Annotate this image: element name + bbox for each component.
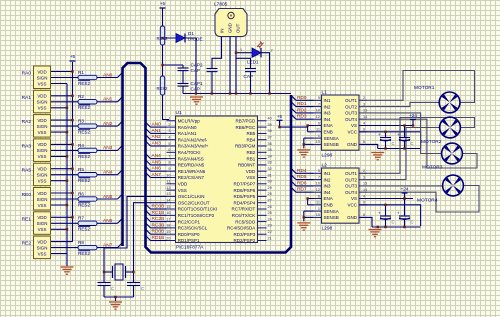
svg-text:OUT4: OUT4 <box>345 117 357 122</box>
svg-text:7: 7 <box>318 102 320 106</box>
svg-text:AN5: AN5 <box>152 159 162 165</box>
svg-text:15: 15 <box>316 140 320 144</box>
svg-text:IN: IN <box>220 29 225 33</box>
svg-text:R4: R4 <box>78 143 84 148</box>
svg-text:OSC2/CLKOUT: OSC2/CLKOUT <box>178 200 210 205</box>
svg-text:OSC1/CLKIN: OSC1/CLKIN <box>178 194 205 199</box>
svg-text:SENSA: SENSA <box>324 136 339 141</box>
svg-text:40: 40 <box>268 117 272 121</box>
svg-text:RD2: RD2 <box>297 107 307 113</box>
svg-text:37: 37 <box>268 136 272 140</box>
svg-text:VSS: VSS <box>246 175 255 180</box>
svg-text:IN4: IN4 <box>324 190 332 195</box>
svg-text:RC1B: RC1B <box>152 210 165 216</box>
svg-text:RD0: RD0 <box>297 95 307 101</box>
svg-text:RA2: RA2 <box>22 119 32 125</box>
svg-text:VDD: VDD <box>37 167 46 172</box>
svg-text:12: 12 <box>166 186 170 190</box>
svg-text:CAP: CAP <box>191 86 200 91</box>
svg-text:RC5/SDO: RC5/SDO <box>235 219 256 224</box>
svg-text:VS: VS <box>351 196 357 201</box>
svg-text:RA1: RA1 <box>22 95 32 101</box>
svg-text:C: C <box>392 220 395 225</box>
svg-text:SIGN: SIGN <box>37 221 48 226</box>
svg-text:5: 5 <box>318 96 320 100</box>
svg-text:RC6/TX/CK: RC6/TX/CK <box>232 213 256 218</box>
svg-text:VSS: VSS <box>38 154 47 159</box>
svg-text:RB4: RB4 <box>247 137 256 142</box>
svg-text:RES2: RES2 <box>157 86 169 91</box>
svg-text:2: 2 <box>271 49 273 53</box>
svg-text:CAP: CAP <box>244 74 253 79</box>
svg-text:RD7/PSP7: RD7/PSP7 <box>234 182 256 187</box>
svg-text:R5: R5 <box>78 167 84 172</box>
svg-text:RES2: RES2 <box>78 227 90 232</box>
svg-text:1: 1 <box>240 48 242 52</box>
svg-text:6: 6 <box>318 194 320 198</box>
svg-text:AN7: AN7 <box>103 242 113 248</box>
svg-text:3: 3 <box>363 175 365 179</box>
svg-text:RD1: RD1 <box>297 101 307 107</box>
svg-text:AN4: AN4 <box>152 153 162 159</box>
svg-text:VSS: VSS <box>38 179 47 184</box>
svg-text:IN3: IN3 <box>324 184 332 189</box>
svg-text:10: 10 <box>316 182 320 186</box>
svg-text:OUT2: OUT2 <box>345 177 357 182</box>
svg-text:R2: R2 <box>78 94 84 99</box>
svg-text:VSS: VSS <box>38 251 47 256</box>
svg-text:3: 3 <box>168 129 170 133</box>
svg-text:RA0/AN0: RA0/AN0 <box>178 125 197 130</box>
svg-text:RA5/AN4/SS: RA5/AN4/SS <box>178 156 204 161</box>
svg-text:VDD: VDD <box>37 239 46 244</box>
svg-text:9: 9 <box>168 167 170 171</box>
svg-text:OUT1: OUT1 <box>345 98 357 103</box>
svg-text:30: 30 <box>268 180 272 184</box>
svg-text:RD1B: RD1B <box>152 235 165 241</box>
svg-text:26: 26 <box>268 205 272 209</box>
svg-text:24: 24 <box>268 217 272 221</box>
svg-text:C: C <box>411 141 414 146</box>
svg-text:+24: +24 <box>401 187 409 192</box>
svg-text:VDD: VDD <box>37 94 46 99</box>
svg-text:+24: +24 <box>409 113 417 118</box>
svg-text:AN5: AN5 <box>103 194 113 200</box>
svg-text:CAP1: CAP1 <box>191 81 203 86</box>
svg-text:RB2: RB2 <box>247 150 256 155</box>
svg-text:MOTOR1: MOTOR1 <box>414 85 435 91</box>
svg-text:VCC: VCC <box>347 130 357 135</box>
svg-text:14: 14 <box>363 115 367 119</box>
svg-text:MOTOR4: MOTOR4 <box>417 198 438 204</box>
svg-text:18: 18 <box>166 224 170 228</box>
svg-text:11: 11 <box>167 180 171 184</box>
svg-text:13: 13 <box>363 182 367 186</box>
svg-text:MOTOR2: MOTOR2 <box>421 139 442 145</box>
svg-text:13: 13 <box>363 109 367 113</box>
svg-text:4: 4 <box>363 194 365 198</box>
svg-text:IN2: IN2 <box>324 177 332 182</box>
svg-text:14: 14 <box>363 188 367 192</box>
svg-text:L298: L298 <box>322 153 333 159</box>
svg-text:ENB: ENB <box>324 203 333 208</box>
svg-text:AN4: AN4 <box>103 170 113 176</box>
svg-text:RD0/PSP0: RD0/PSP0 <box>178 232 200 237</box>
svg-text:38: 38 <box>268 129 272 133</box>
svg-text:RD3: RD3 <box>297 114 307 120</box>
svg-text:10: 10 <box>316 109 320 113</box>
svg-text:RC3B: RC3B <box>152 222 165 228</box>
svg-text:RC2/CCP1: RC2/CCP1 <box>178 219 201 224</box>
svg-text:SENSB: SENSB <box>324 142 339 147</box>
svg-text:20: 20 <box>166 236 170 240</box>
svg-text:DIODE: DIODE <box>188 37 203 42</box>
svg-text:C: C <box>111 286 114 291</box>
svg-text:9: 9 <box>363 128 365 132</box>
svg-text:OUT3: OUT3 <box>345 111 357 116</box>
svg-text:IN1: IN1 <box>324 98 332 103</box>
svg-text:RB5: RB5 <box>247 131 256 136</box>
svg-text:CAP: CAP <box>191 68 200 73</box>
svg-text:1: 1 <box>168 117 170 121</box>
svg-text:OUT: OUT <box>236 23 241 33</box>
svg-text:RD4/PSP4: RD4/PSP4 <box>234 200 256 205</box>
svg-text:15: 15 <box>166 205 170 209</box>
svg-text:AN2: AN2 <box>103 121 113 127</box>
svg-text:RES2: RES2 <box>78 178 90 183</box>
svg-text:AN7: AN7 <box>152 172 162 178</box>
svg-text:RB6/PGC: RB6/PGC <box>236 125 257 130</box>
svg-text:14: 14 <box>166 199 170 203</box>
svg-text:+5: +5 <box>277 114 283 119</box>
svg-text:RES2: RES2 <box>78 251 90 256</box>
svg-text:1: 1 <box>318 207 320 211</box>
svg-text:5: 5 <box>168 142 170 146</box>
svg-text:2: 2 <box>168 123 170 127</box>
svg-text:VDD: VDD <box>178 182 188 187</box>
svg-text:RA1/AN1: RA1/AN1 <box>178 131 197 136</box>
svg-text:33: 33 <box>268 161 272 165</box>
svg-text:RD3/PSP3: RD3/PSP3 <box>234 232 256 237</box>
svg-text:AN1: AN1 <box>152 128 162 134</box>
svg-text:RD6/PSP6: RD6/PSP6 <box>234 188 256 193</box>
svg-text:3: 3 <box>363 102 365 106</box>
svg-text:VDD: VDD <box>37 191 46 196</box>
svg-text:R7: R7 <box>78 216 84 221</box>
svg-text:GND: GND <box>347 215 358 220</box>
svg-text:C: C <box>392 141 395 146</box>
svg-text:L1: L1 <box>322 90 328 96</box>
svg-text:D1: D1 <box>188 31 194 36</box>
svg-text:1: 1 <box>318 134 320 138</box>
svg-text:RC0B: RC0B <box>152 204 165 210</box>
svg-text:VDD: VDD <box>246 169 256 174</box>
svg-text:GND: GND <box>347 142 358 147</box>
svg-text:L298: L298 <box>322 226 333 232</box>
svg-text:31: 31 <box>268 173 272 177</box>
svg-text:RA3/AN3/Vref+: RA3/AN3/Vref+ <box>178 144 209 149</box>
svg-text:IN1: IN1 <box>324 171 332 176</box>
svg-text:R3: R3 <box>78 119 84 124</box>
svg-text:12: 12 <box>316 188 320 192</box>
svg-text:RD0B: RD0B <box>152 229 165 235</box>
svg-text:34: 34 <box>268 154 272 158</box>
svg-text:SIGN: SIGN <box>37 75 48 80</box>
svg-text:27: 27 <box>268 199 272 203</box>
svg-text:8: 8 <box>363 213 365 217</box>
svg-text:AN2: AN2 <box>152 134 162 140</box>
svg-text:28: 28 <box>268 192 272 196</box>
svg-text:7: 7 <box>168 154 170 158</box>
svg-text:SIGN: SIGN <box>37 173 48 178</box>
svg-text:RES2: RES2 <box>78 202 90 207</box>
svg-text:RC1/T1OSI/CCP2: RC1/T1OSI/CCP2 <box>178 213 215 218</box>
svg-text:11: 11 <box>316 201 320 205</box>
svg-text:SIGN: SIGN <box>37 245 48 250</box>
svg-text:8: 8 <box>363 140 365 144</box>
svg-text:VDD: VDD <box>37 142 46 147</box>
svg-text:RB7/PGD: RB7/PGD <box>236 119 257 124</box>
svg-text:OUT3: OUT3 <box>345 184 357 189</box>
svg-text:OUT1: OUT1 <box>345 171 357 176</box>
svg-text:LED1: LED1 <box>247 60 259 65</box>
svg-text:RA3: RA3 <box>22 143 32 149</box>
svg-text:RA4/T0CKI: RA4/T0CKI <box>178 150 201 155</box>
svg-text:15: 15 <box>316 213 320 217</box>
svg-text:R1: R1 <box>78 70 84 75</box>
svg-text:RC2B: RC2B <box>152 216 165 222</box>
svg-text:25: 25 <box>268 211 272 215</box>
svg-text:RES2: RES2 <box>78 81 90 86</box>
svg-text:OUT2: OUT2 <box>345 104 357 109</box>
svg-text:22: 22 <box>268 230 272 234</box>
svg-text:ENA: ENA <box>324 196 333 201</box>
svg-text:2: 2 <box>363 96 365 100</box>
svg-text:SIGN: SIGN <box>37 124 48 129</box>
svg-text:12: 12 <box>316 115 320 119</box>
svg-text:+5: +5 <box>160 1 166 6</box>
svg-text:OUT4: OUT4 <box>345 190 357 195</box>
svg-text:RE0: RE0 <box>22 192 32 198</box>
svg-text:2: 2 <box>363 169 365 173</box>
svg-text:6: 6 <box>318 121 320 125</box>
svg-text:6: 6 <box>168 148 170 152</box>
svg-text:RC3/SCK/SCL: RC3/SCK/SCL <box>178 226 208 231</box>
svg-text:U1: U1 <box>176 110 182 116</box>
svg-text:SIGN: SIGN <box>37 148 48 153</box>
svg-text:CAP2: CAP2 <box>191 63 203 68</box>
svg-text:AN3: AN3 <box>152 141 162 147</box>
svg-text:AN6: AN6 <box>103 218 113 224</box>
svg-text:RD2/PSP2: RD2/PSP2 <box>234 238 256 243</box>
svg-text:AN1: AN1 <box>103 97 113 103</box>
svg-text:RES2: RES2 <box>78 130 90 135</box>
svg-text:+: + <box>397 132 400 137</box>
svg-text:VDD: VDD <box>37 118 46 123</box>
svg-text:+5: +5 <box>70 54 76 59</box>
svg-text:RD5/PSP5: RD5/PSP5 <box>234 194 256 199</box>
svg-text:RE2: RE2 <box>22 241 32 247</box>
svg-text:4: 4 <box>168 136 170 140</box>
svg-text:VSS: VSS <box>38 81 47 86</box>
svg-text:23: 23 <box>268 224 272 228</box>
svg-text:RB3/PGM: RB3/PGM <box>235 144 256 149</box>
svg-text:AN3: AN3 <box>103 145 113 151</box>
svg-text:21: 21 <box>268 236 272 240</box>
svg-text:RC0/T1OSO/T1CKI: RC0/T1OSO/T1CKI <box>178 207 218 212</box>
svg-text:VCC: VCC <box>347 203 357 208</box>
svg-text:VDD: VDD <box>37 69 46 74</box>
svg-text:8: 8 <box>168 161 170 165</box>
svg-text:RC4/SDI/SDA: RC4/SDI/SDA <box>227 226 255 231</box>
svg-text:RD4: RD4 <box>297 168 307 174</box>
svg-text:19: 19 <box>166 230 170 234</box>
svg-text:RES2: RES2 <box>157 36 169 41</box>
svg-text:SENSA: SENSA <box>324 209 339 214</box>
svg-text:29: 29 <box>268 186 272 190</box>
svg-text:VS: VS <box>351 123 357 128</box>
svg-text:7: 7 <box>318 175 320 179</box>
svg-text:PIC16F877A: PIC16F877A <box>176 245 204 251</box>
svg-text:RD7: RD7 <box>297 187 307 193</box>
svg-text:C: C <box>141 286 144 291</box>
svg-text:RA2/AN2/Vref-: RA2/AN2/Vref- <box>178 137 208 142</box>
svg-text:L7805: L7805 <box>214 2 228 8</box>
svg-text:RE0/RD/AN5: RE0/RD/AN5 <box>178 163 205 168</box>
svg-text:VSS: VSS <box>38 130 47 135</box>
svg-text:16: 16 <box>166 211 170 215</box>
svg-text:VSS: VSS <box>38 203 47 208</box>
svg-text:R8: R8 <box>78 240 84 245</box>
svg-text:VDD: VDD <box>37 215 46 220</box>
svg-text:RE1: RE1 <box>22 216 32 222</box>
svg-text:RE1/WR/AN6: RE1/WR/AN6 <box>178 169 206 174</box>
svg-text:R6: R6 <box>78 191 84 196</box>
svg-text:RB1: RB1 <box>247 156 256 161</box>
svg-text:AN0: AN0 <box>103 72 113 78</box>
svg-text:RD5: RD5 <box>297 174 307 180</box>
svg-text:SIGN: SIGN <box>37 197 48 202</box>
svg-text:10: 10 <box>166 173 170 177</box>
svg-text:IN4: IN4 <box>324 117 332 122</box>
svg-text:+: + <box>378 211 381 216</box>
svg-text:C: C <box>411 220 414 225</box>
svg-text:RA0: RA0 <box>22 71 32 77</box>
svg-text:GND: GND <box>228 23 233 33</box>
svg-text:SIGN: SIGN <box>37 100 48 105</box>
svg-text:VSS: VSS <box>178 188 187 193</box>
svg-text:+: + <box>397 211 400 216</box>
svg-text:RES2: RES2 <box>78 154 90 159</box>
svg-text:39: 39 <box>268 123 272 127</box>
svg-text:11: 11 <box>316 128 320 132</box>
svg-text:9: 9 <box>363 201 365 205</box>
svg-text:RD6: RD6 <box>297 180 307 186</box>
svg-text:AN6: AN6 <box>152 166 162 172</box>
svg-text:RA5: RA5 <box>22 168 32 174</box>
svg-text:RES2: RES2 <box>78 105 90 110</box>
svg-text:SENSB: SENSB <box>324 215 339 220</box>
svg-text:RB0/INT: RB0/INT <box>238 163 256 168</box>
svg-text:5: 5 <box>318 169 320 173</box>
svg-text:VSS: VSS <box>38 106 47 111</box>
svg-text:L2: L2 <box>322 163 328 169</box>
svg-text:RC7/RX/DT: RC7/RX/DT <box>232 207 256 212</box>
svg-text:MCLR/Vpp: MCLR/Vpp <box>178 119 201 124</box>
svg-text:4: 4 <box>363 121 365 125</box>
svg-text:ENA: ENA <box>324 123 333 128</box>
svg-text:17: 17 <box>166 217 170 221</box>
svg-text:ENB: ENB <box>324 130 333 135</box>
svg-text:RE2/CS/AN7: RE2/CS/AN7 <box>178 175 205 180</box>
svg-text:AN0: AN0 <box>152 122 162 128</box>
svg-text:36: 36 <box>268 142 272 146</box>
svg-text:IN2: IN2 <box>324 104 332 109</box>
svg-text:13: 13 <box>166 192 170 196</box>
svg-text:RD1/PSP1: RD1/PSP1 <box>178 238 200 243</box>
svg-text:VSS: VSS <box>38 227 47 232</box>
svg-text:IN3: IN3 <box>324 111 332 116</box>
svg-text:MOTOR3: MOTOR3 <box>422 165 443 171</box>
svg-text:32: 32 <box>268 167 272 171</box>
svg-text:35: 35 <box>268 148 272 152</box>
svg-text:+: + <box>378 132 381 137</box>
